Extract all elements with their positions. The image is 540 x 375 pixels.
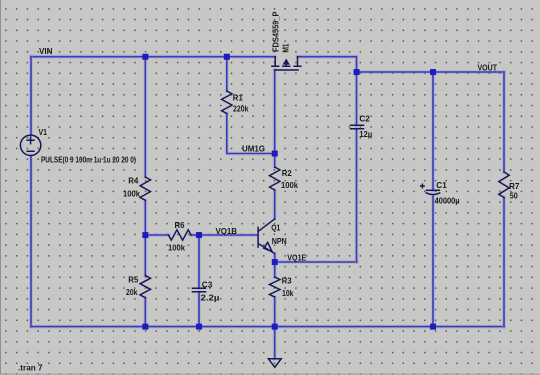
transistor Q1 (NPN) — [258, 219, 287, 254]
svg-text:20k: 20k — [126, 288, 138, 297]
svg-text:50: 50 — [510, 191, 518, 200]
resistor R7 — [499, 172, 520, 200]
wire ground stub — [273, 327, 277, 359]
wire R7 bottom lead — [502, 198, 506, 327]
junction at VQ1E node — [272, 259, 278, 265]
svg-text:R6: R6 — [175, 221, 185, 230]
junction at UM1G node — [272, 151, 278, 157]
svg-text:C2: C2 — [359, 115, 370, 124]
voltage source V1 — [20, 128, 136, 165]
junction at drain/C2 — [354, 69, 360, 75]
resistor R5 — [126, 275, 151, 297]
junction at R6/C3 — [196, 232, 202, 238]
wire R5 bottom lead — [143, 298, 147, 327]
svg-text:UM1G: UM1G — [242, 145, 265, 154]
node VQ1B label — [216, 227, 238, 236]
wire M1 drain to C2 node — [298, 57, 357, 72]
svg-text:100k: 100k — [168, 244, 185, 253]
wire R4 to R5 branch — [143, 200, 147, 275]
svg-text:VQ1E: VQ1E — [287, 254, 306, 263]
transistor M1 (PMOS FDS4559_P) — [271, 11, 301, 70]
svg-text:R5: R5 — [128, 276, 138, 285]
resistor R1 — [222, 91, 249, 114]
wire VQ1E horizontal — [275, 260, 357, 264]
junction at bottom/ground — [272, 324, 278, 330]
svg-text:VQ1B: VQ1B — [216, 227, 238, 236]
resistor R3 — [270, 277, 294, 298]
svg-text:10k: 10k — [282, 289, 294, 298]
wire VIN top rail — [31, 55, 275, 59]
junction at VOUT/C1 — [430, 69, 436, 75]
node UM1G label — [242, 145, 265, 154]
wire C3 top lead — [197, 235, 201, 288]
wire R2 to Q1 collector — [273, 190, 277, 219]
svg-text:R7: R7 — [509, 182, 520, 191]
svg-text:FDS4559_P: FDS4559_P — [271, 11, 280, 52]
wire VOUT rail — [357, 70, 505, 74]
svg-text:40000µ: 40000µ — [435, 197, 460, 206]
wire C3 bottom lead — [197, 292, 201, 326]
node VQ1E label — [287, 254, 306, 263]
capacitor C3 — [193, 281, 220, 303]
resistor R6 — [168, 221, 191, 252]
wire R7 top lead — [502, 72, 506, 172]
svg-text:VIN: VIN — [39, 47, 53, 56]
ground — [268, 359, 281, 367]
wire R1 bottom to UM1G node — [227, 114, 275, 154]
wire C1 top lead — [431, 72, 435, 190]
wire V1 to bottom rail — [29, 156, 33, 327]
wire R6 right lead — [191, 233, 199, 237]
wire bottom rail — [31, 325, 504, 329]
svg-text:R4: R4 — [128, 177, 138, 186]
svg-text:R2: R2 — [282, 169, 292, 178]
capacitor C1 (polarized) — [421, 181, 460, 206]
svg-text:Q1: Q1 — [271, 224, 280, 233]
svg-text:.tran 7: .tran 7 — [18, 364, 43, 373]
wire R3 bottom lead — [273, 297, 277, 327]
wire Q1 emitter to VQ1E — [273, 254, 277, 263]
svg-text:12µ: 12µ — [359, 130, 372, 139]
wire R6 left lead — [145, 233, 168, 237]
wire R2 top lead — [273, 154, 277, 168]
svg-text:100k: 100k — [281, 181, 298, 190]
svg-text:R1: R1 — [233, 94, 243, 103]
junction at VIN/R1 — [224, 54, 230, 60]
svg-text:2.2µ: 2.2µ — [201, 294, 220, 303]
wire R3 top lead — [273, 262, 277, 277]
node VIN label — [39, 47, 53, 56]
resistor R4 — [123, 177, 151, 201]
wire R4 top lead from VIN — [143, 57, 147, 177]
wire R1 top lead — [225, 57, 229, 91]
wire C1 bottom lead — [431, 196, 435, 327]
junction at VIN/R4 — [142, 54, 148, 60]
svg-text:220k: 220k — [233, 105, 249, 114]
svg-text:C1: C1 — [436, 181, 447, 190]
spice directive .tran 7 — [18, 364, 43, 373]
svg-text:PULSE(0 9 100m 1u 1u 20 20 0): PULSE(0 9 100m 1u 1u 20 20 0) — [41, 156, 136, 165]
node VOUT label — [478, 63, 498, 72]
junction at bottom/C1 — [430, 324, 436, 330]
svg-text:M1: M1 — [282, 43, 291, 52]
wire M1 gate drop — [273, 70, 277, 154]
svg-text:R3: R3 — [282, 277, 292, 286]
svg-text:VOUT: VOUT — [478, 63, 498, 72]
junction at bottom/C3 — [196, 324, 202, 330]
wire C2 bottom to VQ1E — [355, 129, 359, 262]
wire VQ1B to Q1 base — [199, 233, 258, 237]
wire left drop to V1 — [29, 57, 33, 135]
svg-text:V1: V1 — [39, 128, 48, 137]
svg-text:100k: 100k — [123, 189, 140, 198]
junction at R4/R6 — [142, 232, 148, 238]
junction at bottom/R5 — [142, 324, 148, 330]
resistor R2 — [270, 167, 299, 190]
capacitor C2 — [351, 115, 373, 140]
svg-text:C3: C3 — [202, 281, 213, 290]
wire C2 top lead — [355, 72, 359, 125]
svg-text:NPN: NPN — [272, 237, 287, 246]
